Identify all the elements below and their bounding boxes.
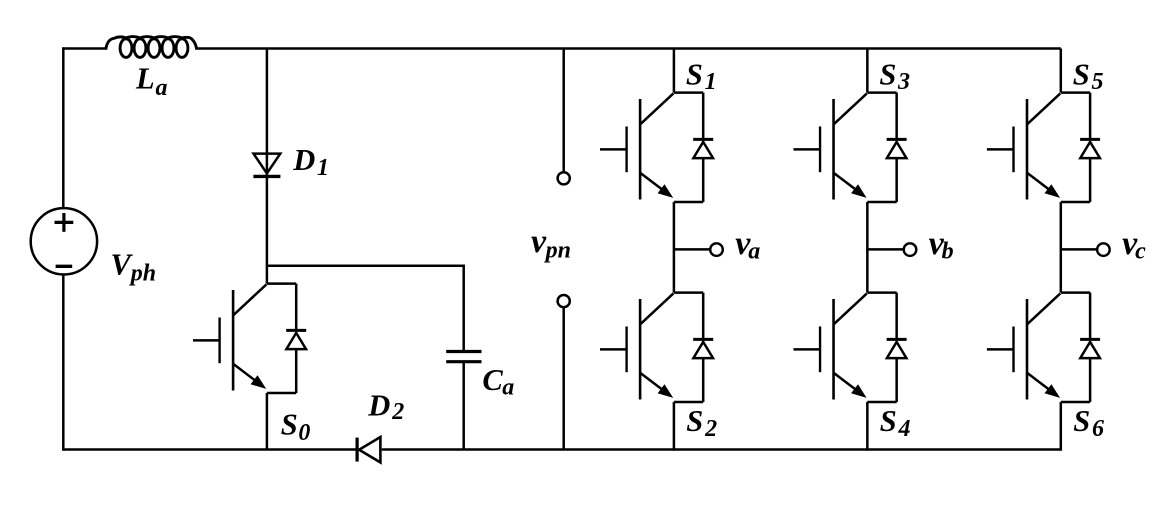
wire vpn lower (562, 307, 565, 449)
label S5 (1073, 57, 1104, 95)
antiparallel diode of S1 (693, 93, 713, 202)
wire S6 emitter to bottom rail (1060, 402, 1063, 451)
antiparallel diode of S2 (693, 293, 713, 402)
port terminal vpn bottom (558, 295, 570, 307)
svg-text:C: C (482, 363, 503, 397)
wire output node vc (1061, 248, 1097, 251)
svg-text:2: 2 (704, 416, 717, 442)
antiparallel diode of S3 (887, 93, 907, 202)
svg-text:L: L (135, 62, 155, 96)
wire top rail from inductor to right corner (197, 47, 1061, 50)
wire node to Ca top (267, 266, 464, 352)
wire left branch lower (source to bottom rail) (62, 274, 65, 450)
wire vpn upper (562, 49, 565, 173)
antiparallel diode of S6 (1080, 293, 1100, 402)
svg-text:1: 1 (705, 69, 717, 95)
IGBT S5 (987, 93, 1090, 202)
svg-text:S: S (1073, 404, 1090, 438)
svg-text:6: 6 (1092, 416, 1104, 442)
svg-text:S: S (880, 404, 897, 438)
wire leg middle (S3 emitter to S4 collector) (866, 202, 869, 293)
label S2 (686, 404, 717, 442)
label S1 (686, 57, 717, 95)
svg-text:a: a (502, 374, 514, 400)
label va (735, 225, 760, 265)
antiparallel diode of S4 (887, 293, 907, 402)
label vpn (531, 223, 571, 264)
wire S2 emitter to bottom rail (673, 402, 676, 451)
svg-text:S: S (281, 408, 298, 442)
diode D2 (357, 437, 380, 462)
svg-text:a: a (748, 239, 760, 265)
IGBT S2 (600, 293, 703, 402)
svg-text:2: 2 (391, 399, 404, 425)
svg-text:pn: pn (544, 238, 571, 264)
wire D1 to S0 collector node (266, 176, 269, 283)
IGBT S6 (987, 293, 1090, 402)
wire left branch upper (source to top rail) (62, 47, 65, 208)
label S6 (1073, 404, 1104, 442)
svg-text:b: b (942, 239, 954, 265)
wire leg middle (S5 emitter to S6 collector) (1060, 202, 1063, 293)
wire top rail left of inductor (63, 47, 106, 50)
svg-text:v: v (531, 223, 547, 260)
label vb (929, 225, 954, 265)
svg-text:ph: ph (129, 261, 156, 287)
label vc (1122, 225, 1146, 265)
antiparallel diode of S5 (1080, 93, 1100, 202)
svg-text:1: 1 (317, 155, 329, 181)
diode D1 (253, 154, 280, 177)
svg-text:5: 5 (1092, 69, 1104, 95)
svg-text:D: D (367, 388, 390, 422)
wire S4 emitter to bottom rail (866, 402, 869, 451)
inductor La (106, 37, 197, 58)
svg-text:3: 3 (897, 69, 910, 95)
IGBT S4 (793, 293, 896, 402)
antiparallel diode of S0 (286, 284, 306, 393)
port terminal vpn top (558, 172, 570, 184)
label Vph (111, 248, 157, 287)
svg-text:c: c (1135, 239, 1146, 265)
node terminal vc (1097, 243, 1110, 256)
IGBT S0 (193, 284, 296, 393)
label Ca (482, 363, 514, 401)
wire S5 collector stub (1060, 49, 1063, 93)
svg-text:S: S (686, 57, 703, 91)
wire S0 emitter to bottom rail (266, 393, 269, 450)
wire leg middle (S1 emitter to S2 collector) (673, 202, 676, 293)
svg-text:S: S (1073, 57, 1090, 91)
label D2 (367, 388, 404, 424)
svg-text:a: a (156, 75, 168, 101)
label S3 (879, 57, 910, 95)
label S0 (281, 408, 311, 447)
IGBT S1 (600, 93, 703, 202)
source Vph (31, 208, 97, 274)
wire bottom rail right of diode D2 (382, 448, 1061, 451)
IGBT S3 (793, 93, 896, 202)
wire S3 collector stub (866, 49, 869, 93)
node terminal va (710, 243, 723, 256)
svg-text:D: D (292, 143, 315, 177)
node terminal vb (904, 243, 917, 256)
wire output node vb (867, 248, 903, 251)
svg-text:0: 0 (298, 420, 310, 446)
label D1 (292, 143, 329, 181)
wire D1 branch upper (266, 49, 269, 177)
wire bottom rail left of diode D2 (63, 448, 357, 451)
svg-text:S: S (879, 57, 896, 91)
wire S1 collector stub (673, 49, 676, 93)
label La (135, 62, 168, 101)
capacitor Ca (446, 352, 481, 450)
label S4 (880, 404, 911, 442)
svg-text:S: S (686, 404, 703, 438)
wire output node va (674, 248, 710, 251)
svg-text:4: 4 (898, 416, 911, 442)
